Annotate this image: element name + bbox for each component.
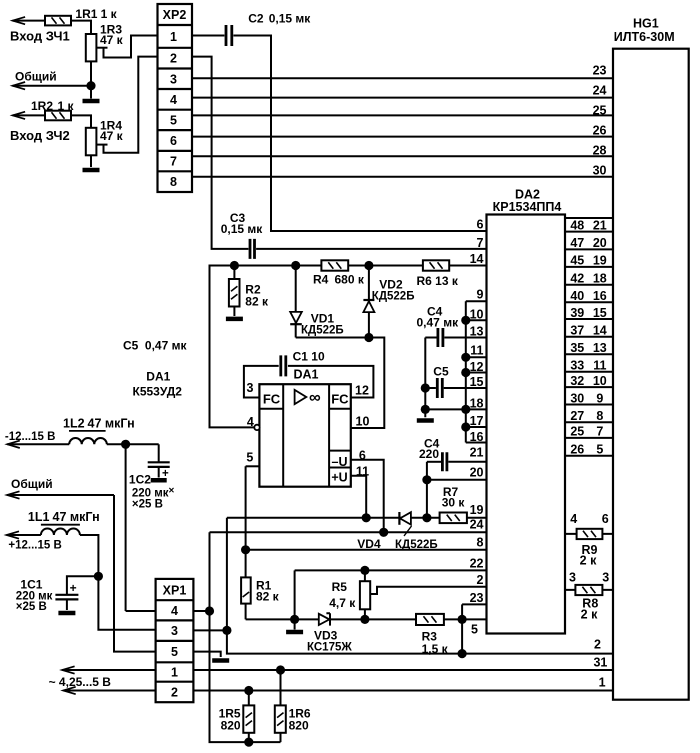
svg-text:7: 7 [477, 236, 484, 250]
svg-text:82 к: 82 к [245, 295, 269, 309]
svg-text:25: 25 [570, 425, 584, 439]
svg-text:R5: R5 [332, 580, 348, 594]
svg-text:+: + [70, 581, 77, 595]
svg-text:4: 4 [171, 604, 178, 618]
svg-text:DA1: DA1 [146, 370, 170, 384]
svg-text:R4: R4 [313, 273, 329, 287]
svg-text:1,5 к: 1,5 к [422, 642, 449, 656]
svg-text:КД522Б: КД522Б [372, 291, 415, 303]
svg-text:~ 4,25...5 В: ~ 4,25...5 В [49, 675, 112, 689]
svg-text:1R2: 1R2 [31, 99, 53, 113]
svg-text:40: 40 [570, 289, 584, 303]
svg-text:82 к: 82 к [256, 590, 280, 604]
svg-text:Вход ЗЧ2: Вход ЗЧ2 [10, 128, 70, 143]
svg-text:1C1: 1C1 [20, 578, 42, 592]
svg-text:FC: FC [263, 392, 281, 407]
svg-text:15: 15 [593, 306, 607, 320]
svg-text:47 мкГн: 47 мкГн [88, 417, 135, 431]
svg-text:ХР1: ХР1 [163, 584, 187, 598]
svg-text:26: 26 [570, 443, 584, 457]
svg-text:2 к: 2 к [581, 607, 598, 621]
svg-text:25: 25 [593, 104, 607, 118]
svg-text:8: 8 [477, 536, 484, 550]
svg-text:4: 4 [570, 512, 577, 526]
svg-text:5: 5 [171, 645, 178, 659]
svg-text:-12...15 В: -12...15 В [5, 431, 56, 443]
svg-text:31: 31 [593, 655, 607, 669]
svg-text:16: 16 [470, 430, 484, 444]
svg-text:12: 12 [355, 384, 369, 398]
svg-text:28: 28 [593, 144, 607, 158]
svg-text:+: + [162, 468, 169, 480]
svg-text:К553УД2: К553УД2 [133, 385, 183, 399]
svg-text:820: 820 [221, 719, 241, 733]
svg-text:+12...15 В: +12...15 В [8, 540, 61, 552]
svg-text:VD2: VD2 [379, 278, 403, 292]
svg-text:0,15 мк: 0,15 мк [221, 222, 264, 236]
svg-text:20: 20 [593, 236, 607, 250]
svg-text:42: 42 [570, 272, 584, 286]
svg-text:2: 2 [477, 573, 484, 587]
svg-text:3: 3 [247, 381, 254, 395]
svg-text:С5: С5 [433, 365, 449, 379]
svg-text:–U: –U [332, 455, 348, 469]
svg-text:1: 1 [170, 30, 177, 44]
svg-text:33: 33 [570, 359, 584, 373]
svg-text:7: 7 [596, 425, 603, 439]
svg-text:30: 30 [593, 164, 607, 178]
svg-text:11: 11 [593, 359, 606, 373]
svg-text:КС175Ж: КС175Ж [307, 642, 352, 654]
svg-text:ИЛТ6-30М: ИЛТ6-30М [614, 30, 675, 44]
svg-text:3: 3 [602, 570, 609, 584]
svg-text:0,47 мк: 0,47 мк [145, 339, 188, 353]
svg-text:7: 7 [170, 155, 177, 169]
svg-text:3: 3 [569, 570, 576, 584]
svg-text:11: 11 [356, 465, 369, 479]
svg-text:820: 820 [289, 719, 309, 733]
svg-text:13: 13 [470, 324, 484, 338]
svg-text:10: 10 [356, 415, 370, 429]
svg-text:47: 47 [570, 236, 584, 250]
svg-text:18: 18 [593, 272, 607, 286]
svg-text:VD3: VD3 [314, 629, 338, 643]
svg-text:37: 37 [570, 324, 584, 338]
svg-text:5: 5 [170, 113, 177, 127]
svg-text:1 к: 1 к [58, 99, 75, 113]
svg-text:8: 8 [170, 175, 177, 189]
svg-text:4: 4 [247, 415, 254, 429]
svg-text:DA1: DA1 [293, 368, 318, 382]
svg-text:48: 48 [570, 218, 584, 232]
svg-text:15: 15 [470, 375, 484, 389]
svg-text:24: 24 [593, 83, 607, 97]
svg-text:30: 30 [570, 391, 584, 405]
svg-text:6: 6 [602, 512, 609, 526]
svg-text:4: 4 [170, 93, 177, 107]
svg-text:1: 1 [171, 666, 178, 680]
svg-text:КД522Б: КД522Б [301, 325, 344, 337]
svg-text:24: 24 [470, 518, 484, 532]
svg-text:2: 2 [594, 638, 601, 652]
svg-text:27: 27 [570, 409, 584, 423]
svg-text:220: 220 [419, 447, 439, 461]
svg-text:14: 14 [593, 324, 607, 338]
svg-text:8: 8 [596, 409, 603, 423]
svg-text:×25 В: ×25 В [16, 601, 47, 613]
svg-text:35: 35 [570, 341, 584, 355]
svg-text:47 к: 47 к [100, 33, 124, 47]
svg-text:+U: +U [331, 471, 347, 485]
svg-text:КД522Б: КД522Б [395, 539, 438, 551]
svg-text:1L2: 1L2 [63, 417, 85, 431]
svg-text:VD1: VD1 [311, 312, 335, 326]
svg-text:1 к: 1 к [101, 7, 118, 21]
svg-text:×25 В: ×25 В [132, 499, 163, 511]
svg-text:FC: FC [331, 391, 349, 406]
svg-text:0,15 мк: 0,15 мк [269, 12, 312, 26]
svg-text:5: 5 [596, 443, 603, 457]
svg-text:12: 12 [470, 360, 484, 374]
svg-text:2: 2 [171, 686, 178, 700]
svg-text:1: 1 [599, 676, 606, 690]
svg-text:С2: С2 [248, 12, 264, 26]
svg-text:0,47 мк: 0,47 мк [417, 315, 460, 329]
svg-text:14: 14 [470, 252, 484, 266]
svg-text:6: 6 [477, 218, 484, 232]
svg-text:10: 10 [593, 374, 607, 388]
svg-text:5: 5 [471, 623, 478, 637]
svg-text:19: 19 [593, 254, 607, 268]
svg-text:1L1: 1L1 [28, 510, 50, 524]
svg-text:6: 6 [170, 134, 177, 148]
svg-text:R6 13 к: R6 13 к [417, 274, 459, 288]
svg-text:С5: С5 [123, 339, 139, 353]
svg-text:680 к: 680 к [335, 273, 365, 287]
svg-text:Общий: Общий [15, 70, 57, 84]
svg-text:16: 16 [593, 289, 607, 303]
svg-text:4,7 к: 4,7 к [329, 596, 356, 610]
svg-text:1R1: 1R1 [75, 7, 97, 21]
svg-text:HG1: HG1 [633, 17, 659, 31]
svg-text:18: 18 [470, 397, 484, 411]
svg-text:С1 10: С1 10 [293, 350, 325, 364]
svg-text:6: 6 [359, 449, 366, 463]
svg-text:23: 23 [470, 591, 484, 605]
svg-text:21: 21 [470, 446, 484, 460]
svg-text:11: 11 [470, 344, 483, 358]
svg-text:VD4: VD4 [357, 537, 381, 551]
svg-text:×: × [169, 486, 175, 497]
svg-text:ХР2: ХР2 [163, 8, 187, 22]
svg-text:20: 20 [470, 466, 484, 480]
svg-text:21: 21 [593, 218, 607, 232]
svg-text:26: 26 [593, 124, 607, 138]
svg-text:30 к: 30 к [442, 495, 466, 509]
svg-text:Общий: Общий [11, 477, 53, 491]
svg-text:13: 13 [593, 341, 607, 355]
svg-text:9: 9 [477, 288, 484, 302]
svg-text:2 к: 2 к [580, 554, 597, 568]
svg-text:17: 17 [470, 414, 484, 428]
svg-text:3: 3 [170, 72, 177, 86]
svg-text:47 мкГн: 47 мкГн [53, 510, 100, 524]
svg-text:5: 5 [246, 451, 253, 465]
svg-text:КР1534ПП4: КР1534ПП4 [493, 200, 562, 214]
svg-text:10: 10 [470, 308, 484, 322]
svg-text:22: 22 [470, 557, 484, 571]
svg-text:Вход ЗЧ1: Вход ЗЧ1 [10, 29, 70, 44]
svg-text:23: 23 [593, 64, 607, 78]
svg-text:39: 39 [570, 306, 584, 320]
svg-text:∞: ∞ [309, 389, 321, 407]
svg-text:9: 9 [596, 391, 603, 405]
svg-text:3: 3 [171, 624, 178, 638]
svg-text:45: 45 [570, 254, 584, 268]
svg-text:1C2: 1C2 [129, 473, 151, 487]
svg-text:32: 32 [570, 374, 584, 388]
svg-text:19: 19 [470, 503, 484, 517]
svg-text:2: 2 [170, 52, 177, 66]
svg-text:47 к: 47 к [100, 129, 124, 143]
